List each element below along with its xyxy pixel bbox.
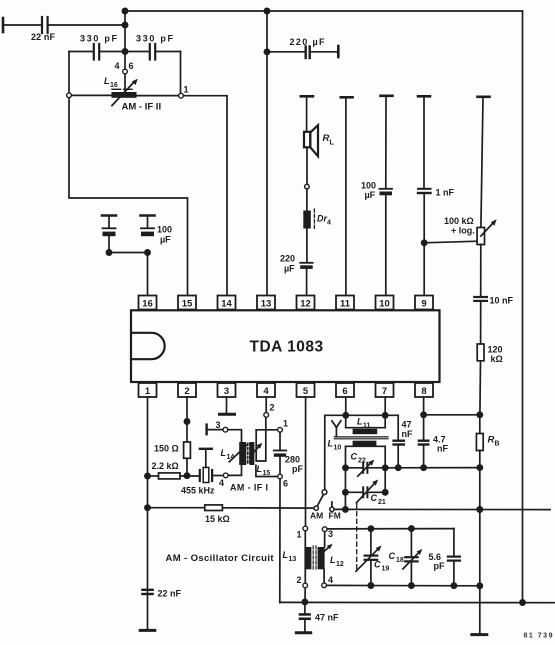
svg-text:µF: µF bbox=[365, 190, 376, 200]
node junction 147.5,252.5 bbox=[145, 250, 150, 255]
svg-text:10: 10 bbox=[334, 445, 342, 452]
svg-text:6: 6 bbox=[342, 386, 347, 397]
node junction 423.6,467.7 bbox=[421, 465, 426, 470]
capacitor 47nF top bbox=[397, 415, 399, 439]
svg-text:3: 3 bbox=[224, 386, 229, 397]
node junction 453.9,585.7 bbox=[451, 583, 456, 588]
wire bottom rail y602.5 bbox=[280, 601, 555, 603]
svg-text:µF: µF bbox=[284, 264, 295, 274]
svg-text:12: 12 bbox=[336, 561, 344, 568]
svg-text:AM - IF I: AM - IF I bbox=[230, 483, 268, 493]
wire pin8 to pot line bbox=[424, 414, 480, 416]
capacitor 100uF right electrolytic bbox=[141, 214, 155, 217]
pin 15 box bbox=[178, 296, 196, 310]
wire top supply rail bbox=[125, 10, 523, 12]
svg-text:6: 6 bbox=[283, 479, 288, 489]
wire pin2 vertical bbox=[186, 397, 188, 442]
svg-text:100 kΩ: 100 kΩ bbox=[444, 216, 474, 226]
capacitor 1nF pin9 bbox=[418, 188, 431, 190]
svg-text:1 nF: 1 nF bbox=[436, 188, 455, 198]
wire pin1 vertical bbox=[147, 397, 149, 629]
wire pin16 net vertical bbox=[124, 11, 126, 69]
wire osc row bottom y585.6 bbox=[327, 584, 480, 586]
svg-text:220: 220 bbox=[280, 254, 295, 264]
pin 9 box bbox=[415, 296, 433, 310]
inductor L16 adjust arrow bbox=[112, 82, 134, 106]
capacitor 100uF left electrolytic bbox=[102, 214, 116, 217]
pin 7 box bbox=[376, 383, 394, 397]
pin 2 box bbox=[178, 383, 196, 397]
svg-text:C: C bbox=[351, 452, 358, 462]
inductor L11 winding bar bbox=[353, 429, 378, 434]
L15 tap wiring to circle2 bbox=[256, 418, 266, 461]
resistor 150 ohm bbox=[184, 442, 191, 458]
node junction 125,11 bbox=[122, 8, 127, 13]
pin stubs top bbox=[147, 310, 149, 312]
node circle 4 (AM-IF I) bbox=[223, 473, 228, 478]
svg-text:100: 100 bbox=[157, 225, 172, 235]
svg-text:pF: pF bbox=[434, 561, 445, 571]
node junction 385.2,415.3 bbox=[383, 413, 388, 418]
node circle 1 (AM-IF I sec) bbox=[278, 427, 283, 432]
node junction 109,252.5 bbox=[106, 250, 111, 255]
resistor 2.2k bbox=[148, 475, 159, 477]
svg-text:Dr: Dr bbox=[317, 214, 327, 224]
wire L15 top to circle 1 bbox=[256, 429, 277, 431]
svg-text:4: 4 bbox=[115, 61, 120, 71]
svg-text:TDA 1083: TDA 1083 bbox=[250, 339, 324, 356]
svg-text:11: 11 bbox=[340, 298, 351, 309]
capacitor 100uF pin10 bbox=[380, 188, 393, 190]
node circle 4 (L12) bbox=[322, 583, 327, 588]
node junction 479.8,414.8 bbox=[477, 412, 482, 417]
IC U1 TDA1083 body bbox=[131, 310, 440, 382]
wire c4 to L14 bbox=[228, 465, 241, 475]
capacitor 330pF left bbox=[93, 44, 95, 60]
svg-text:3: 3 bbox=[328, 529, 333, 539]
node junction 345.5,467.8 bbox=[343, 465, 348, 470]
pin stubs bottom bbox=[147, 381, 149, 383]
wire loop left vertical bbox=[68, 52, 70, 93]
svg-text:19: 19 bbox=[382, 566, 390, 573]
svg-text:1: 1 bbox=[184, 85, 189, 95]
terminal input left bbox=[2, 18, 5, 32]
wire pins6-7 row y415.3 bbox=[325, 414, 398, 416]
switch FM contact bbox=[330, 507, 334, 511]
wire pin5 vertical bbox=[305, 397, 307, 526]
wire circle1 to pin14 bbox=[184, 96, 227, 296]
L12 adjust arrow bbox=[322, 546, 331, 553]
pin 14 box bbox=[218, 296, 236, 310]
inductor L16 terminal 4-6 circle bbox=[123, 69, 128, 74]
wire right rail bbox=[522, 11, 524, 603]
svg-text:47 nF: 47 nF bbox=[315, 613, 339, 623]
switch AM contact line bbox=[324, 415, 326, 489]
node junction 125,25 bbox=[122, 22, 127, 27]
capacitor C22 variable bbox=[346, 467, 362, 469]
svg-text:C: C bbox=[371, 493, 378, 503]
wire circle6 down to bottom rail bbox=[279, 479, 281, 602]
node junction 267,51.8 bbox=[264, 49, 269, 54]
node junction 267,11 bbox=[264, 8, 269, 13]
capacitor 220uF top electrolytic bbox=[305, 47, 307, 59]
node junction 423.6,414.8 bbox=[421, 412, 426, 417]
wire pin13 vertical bbox=[266, 11, 268, 296]
svg-text:16: 16 bbox=[110, 82, 118, 89]
svg-text:14: 14 bbox=[221, 298, 232, 309]
wire L16 left bbox=[72, 94, 112, 96]
svg-text:L: L bbox=[257, 464, 263, 474]
terminal T pin12 top bbox=[301, 95, 313, 98]
svg-text:13: 13 bbox=[261, 298, 272, 309]
svg-text:6: 6 bbox=[129, 61, 134, 71]
pin 3 box bbox=[218, 383, 236, 397]
svg-text:FM: FM bbox=[329, 511, 341, 521]
wire right node vertical bbox=[384, 446, 386, 492]
resistor 120k bbox=[477, 344, 484, 361]
terminal bar 220uF bbox=[337, 46, 340, 57]
svg-text:AM - IF II: AM - IF II bbox=[122, 102, 162, 113]
node junction 479.8,467.6 bbox=[477, 465, 482, 470]
svg-text:10: 10 bbox=[379, 298, 390, 309]
svg-text:kΩ: kΩ bbox=[491, 354, 503, 364]
node junction pin9 pot bbox=[422, 240, 427, 245]
pin 13 box bbox=[257, 296, 275, 310]
ground RB bottom bbox=[472, 633, 487, 636]
capacitor 47nF bottom bbox=[304, 602, 306, 613]
potentiometer 100k log bbox=[477, 228, 484, 245]
node junction 345.8,415.3 bbox=[343, 413, 348, 418]
svg-text:7: 7 bbox=[382, 386, 387, 397]
wire 330pF loop top bbox=[69, 51, 93, 53]
core L13/L12 dashes bbox=[312, 546, 314, 571]
svg-text:4: 4 bbox=[219, 478, 224, 488]
node junction 304.9,601.9 bbox=[302, 599, 307, 604]
resistor 15k bbox=[205, 505, 223, 511]
svg-text:4: 4 bbox=[327, 220, 331, 227]
antenna symbol bbox=[332, 421, 337, 428]
pin 10 box bbox=[376, 296, 394, 310]
inductor L11 top bar wire bbox=[346, 427, 386, 429]
svg-text:100: 100 bbox=[361, 181, 376, 191]
capacitor 22nF bottom bbox=[141, 589, 154, 591]
svg-text:B: B bbox=[495, 441, 500, 448]
gang dashed line bbox=[356, 504, 358, 570]
ground pin3 bbox=[226, 397, 228, 413]
speaker RL bbox=[304, 132, 310, 148]
terminal T volume line top bbox=[478, 96, 490, 99]
svg-text:11: 11 bbox=[363, 423, 371, 430]
inductor Dr4 choke bbox=[303, 211, 311, 229]
ground 47nF bbox=[296, 631, 310, 634]
svg-text:9: 9 bbox=[421, 298, 426, 309]
svg-text:47: 47 bbox=[402, 420, 412, 430]
node junction 411.4,528.6 bbox=[409, 526, 414, 531]
terminal T above resonator bbox=[200, 448, 212, 450]
wire C22 row to RB line bbox=[385, 467, 480, 469]
inductor L14 winding bar bbox=[239, 442, 246, 465]
core AM-IF I dashes bbox=[246, 443, 248, 465]
pin 1 box bbox=[139, 383, 157, 397]
wire FM row y509.5 bbox=[334, 508, 550, 510]
inductor L16 core dashes bbox=[112, 88, 121, 90]
pin numbers top bbox=[142, 298, 426, 397]
terminal bar + circle 3 (AM-IF I) bbox=[205, 425, 207, 435]
IC notch bbox=[131, 333, 165, 359]
wire left node vertical bbox=[344, 446, 346, 509]
svg-text:2.2 kΩ: 2.2 kΩ bbox=[152, 461, 179, 471]
svg-text:15 kΩ: 15 kΩ bbox=[205, 514, 230, 524]
capacitor C18 trimmer bbox=[410, 529, 412, 557]
svg-text:C: C bbox=[389, 551, 396, 561]
svg-text:15: 15 bbox=[263, 470, 271, 477]
svg-text:22: 22 bbox=[358, 458, 366, 465]
wire L16 right bbox=[137, 95, 179, 97]
wire 15k row bbox=[148, 507, 205, 509]
inductor L15 winding bar bbox=[250, 442, 255, 465]
pin 11 box bbox=[336, 296, 354, 310]
svg-text:14: 14 bbox=[227, 454, 235, 461]
svg-text:AM: AM bbox=[310, 511, 323, 521]
node junction 385.2,467.8 bbox=[383, 465, 388, 470]
svg-text:C: C bbox=[374, 560, 381, 570]
capacitor 220uF pin12 bbox=[300, 262, 313, 264]
node junction 125,51.5 bbox=[122, 49, 127, 54]
switch pivot bbox=[314, 506, 318, 510]
svg-text:455 kHz: 455 kHz bbox=[181, 486, 215, 496]
L14 adjust slash bbox=[229, 445, 246, 462]
node junction 187,475.7 bbox=[184, 473, 189, 478]
svg-text:280: 280 bbox=[285, 455, 300, 465]
wire pin8 down bbox=[423, 397, 425, 440]
node junction 398.2,467.7 bbox=[396, 465, 401, 470]
svg-text:8: 8 bbox=[421, 386, 426, 397]
node junction 370.9,528.7 bbox=[368, 526, 373, 531]
svg-text:R: R bbox=[323, 133, 330, 144]
svg-text:22 nF: 22 nF bbox=[31, 32, 56, 42]
node junction 187,421.5 bbox=[184, 419, 189, 424]
node junction 479.8,509.5 bbox=[477, 507, 482, 512]
svg-text:1: 1 bbox=[297, 530, 302, 540]
node circle 1 (L13) bbox=[303, 526, 308, 531]
node junction 147.5,476 bbox=[145, 473, 150, 478]
svg-text:3: 3 bbox=[216, 420, 221, 430]
wire pin11 vertical bbox=[345, 98, 347, 296]
svg-text:L: L bbox=[357, 417, 363, 427]
wire L16-left down to pin15 bbox=[69, 98, 188, 296]
capacitor 4.7nF bbox=[418, 440, 430, 442]
inductor L12 winding bar bbox=[318, 547, 325, 569]
node junction 411.4,585.6 bbox=[409, 583, 414, 588]
node L16 right terminal circle 1 bbox=[179, 93, 184, 98]
node circle 3 (L12) bbox=[322, 527, 327, 532]
wire input bbox=[3, 24, 41, 26]
wire pin7 down bbox=[384, 397, 386, 428]
pin 16 box bbox=[139, 296, 157, 310]
resonator 455kHz bbox=[199, 470, 201, 481]
pin 5 box bbox=[297, 383, 315, 397]
svg-text:2: 2 bbox=[297, 575, 302, 585]
wire loop right vertical bbox=[180, 52, 182, 94]
pin 8 box bbox=[415, 383, 433, 397]
node junction 147.5,507.7 bbox=[145, 505, 150, 510]
pin 12 box bbox=[297, 296, 315, 310]
inductor L16 winding bar bbox=[112, 92, 137, 98]
node open circle pin12 line bbox=[305, 184, 310, 189]
svg-text:150 Ω: 150 Ω bbox=[154, 444, 179, 454]
svg-text:18: 18 bbox=[396, 557, 404, 564]
capacitor 5.6pF bbox=[453, 529, 455, 556]
svg-text:4: 4 bbox=[263, 386, 269, 397]
pin 6 box bbox=[336, 383, 354, 397]
capacitor C19 variable bbox=[370, 529, 372, 555]
switch lever bbox=[318, 495, 324, 506]
svg-text:15: 15 bbox=[182, 298, 193, 309]
svg-text:R: R bbox=[488, 435, 495, 446]
svg-text:5: 5 bbox=[303, 386, 309, 397]
inductor L10 winding bar bbox=[353, 441, 377, 446]
node L16 left terminal circle bbox=[67, 93, 72, 98]
ground pin1 bbox=[140, 629, 155, 632]
svg-text:120: 120 bbox=[488, 345, 503, 355]
svg-text:L: L bbox=[221, 448, 227, 458]
svg-text:pF: pF bbox=[292, 464, 303, 474]
node circle 2 (pin4) bbox=[264, 413, 269, 418]
wire pin6 down bbox=[345, 397, 347, 428]
pin 4 box bbox=[257, 383, 275, 397]
capacitor 330pF right bbox=[149, 44, 151, 60]
svg-text:16: 16 bbox=[142, 298, 153, 309]
node junction 345.4,492.3 bbox=[343, 490, 348, 495]
terminal T pin11 top bbox=[341, 96, 353, 99]
svg-text:21: 21 bbox=[378, 499, 386, 506]
svg-text:12: 12 bbox=[300, 298, 311, 309]
wire osc row top y528.6 bbox=[327, 528, 454, 530]
wire 100uF bottoms to pin16 bbox=[109, 253, 148, 296]
terminal T pin10 top bbox=[381, 95, 393, 98]
svg-text:2: 2 bbox=[184, 386, 189, 397]
inductor L13 winding bar bbox=[304, 547, 311, 569]
node circle 6 (AM-IF I sec) bbox=[278, 474, 283, 479]
capacitor 10nF bbox=[474, 296, 487, 298]
inductor L10 bottom wire bbox=[346, 445, 386, 447]
capacitor C21 variable bbox=[345, 491, 361, 493]
wire pot wiper bbox=[424, 241, 477, 243]
svg-text:1: 1 bbox=[145, 386, 151, 397]
svg-text:10 nF: 10 nF bbox=[490, 296, 514, 306]
svg-text:nF: nF bbox=[437, 444, 448, 454]
svg-text:L: L bbox=[104, 76, 110, 86]
node junction 370.9,585.5 bbox=[368, 583, 373, 588]
svg-text:4: 4 bbox=[328, 575, 333, 585]
resistor RB bbox=[476, 434, 483, 451]
svg-text:L: L bbox=[328, 439, 334, 449]
wire 220uF branch bbox=[267, 51, 304, 53]
L15 adjust arrow bbox=[250, 446, 260, 457]
wire circle6 to L15 bottom bbox=[256, 465, 278, 476]
terminal T pin9 top bbox=[418, 95, 430, 98]
svg-text:µF: µF bbox=[160, 235, 171, 245]
svg-text:L: L bbox=[283, 550, 289, 560]
svg-text:+ log.: + log. bbox=[451, 226, 475, 236]
node junction 345.4,509.4 bbox=[343, 507, 348, 512]
svg-text:13: 13 bbox=[289, 556, 297, 563]
capacitor 280pF bbox=[279, 432, 281, 449]
svg-text:1: 1 bbox=[283, 419, 288, 429]
node circle 2 (L13) bbox=[303, 583, 308, 588]
svg-text:L: L bbox=[330, 555, 336, 565]
svg-text:2: 2 bbox=[270, 403, 275, 413]
capacitor 22nF input bbox=[41, 17, 43, 33]
ferrite core lines bbox=[334, 436, 388, 438]
svg-text:nF: nF bbox=[402, 429, 413, 439]
svg-text:AM - Oscillator Circuit: AM - Oscillator Circuit bbox=[166, 553, 275, 564]
transformer AM-IF I : wire c3 to L14 bbox=[228, 430, 242, 442]
node junction 385.2,492.3 bbox=[383, 490, 388, 495]
node junction 479.8,585.8 bbox=[477, 583, 482, 588]
svg-text:22 nF: 22 nF bbox=[158, 589, 182, 599]
svg-text:L: L bbox=[330, 140, 335, 147]
node junction 522.5,602.5 bbox=[520, 600, 525, 605]
